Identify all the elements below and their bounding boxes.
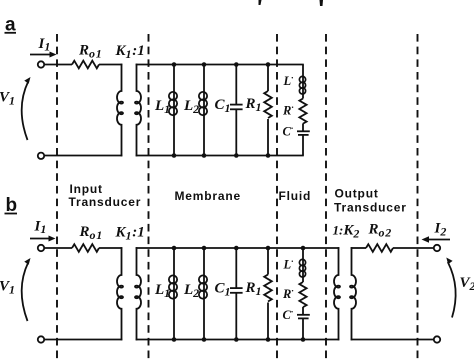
dashed boundary line 2 (transducer/membrane): [148, 34, 150, 360]
resistor R1 (a): [264, 65, 272, 156]
transformer K1 primary winding (a): [117, 64, 123, 157]
transformer K2 primary winding (b): [334, 247, 340, 340]
terminal bottom-left (a): [38, 153, 44, 159]
panel label b: [5, 195, 18, 216]
voltage arrow V1 (a): [22, 77, 31, 140]
inductor L1 (a): [169, 65, 177, 156]
terminal top-left (a): [38, 61, 44, 67]
wire: resistor to transformer primary (b): [99, 247, 122, 249]
terminal bottom-left (b): [38, 336, 44, 342]
fluid inductor L (b): [299, 248, 305, 282]
resistor Ro1 (b): [72, 244, 99, 252]
wire: top-left to resistor (b): [44, 247, 72, 249]
transformer K1 primary winding (b): [117, 247, 123, 340]
junction dots membrane bottom rail (a): [172, 153, 271, 158]
resistor R1 (b): [264, 248, 272, 340]
wire: resistor to top-right terminal (b): [393, 247, 434, 249]
terminal top-right (b): [434, 245, 440, 251]
wire: membrane bottom rail (a): [136, 155, 304, 157]
resistor Ro1 (a): [72, 61, 99, 69]
wire: membrane bottom rail (b): [136, 339, 340, 341]
transformer K1 secondary winding (a): [135, 64, 141, 157]
inductor L2 (a): [199, 65, 207, 156]
transformer K1 secondary winding (b): [135, 247, 141, 340]
inductor L1 (b): [169, 248, 177, 340]
resistor Ro2 (b): [366, 244, 393, 252]
capacitor C1 (b): [230, 248, 243, 340]
dashed boundary line 5 (output side): [417, 34, 419, 360]
transformer K2 secondary winding (b): [350, 247, 356, 340]
wire: bottom-left rail (b): [44, 339, 122, 341]
wire: resistor to transformer primary (a): [99, 64, 122, 66]
terminal bottom-right (b): [434, 336, 440, 342]
voltage arrow V1 (b): [22, 258, 31, 321]
panel label a: [5, 15, 17, 36]
section label: Output Transducer: [334, 187, 407, 215]
junction dots membrane top rail (a): [172, 62, 271, 67]
current arrow I1 (a): [30, 52, 57, 58]
wire: secondary to bottom-right terminal (b): [351, 339, 434, 341]
voltage arrow V2 (b): [446, 258, 455, 318]
junction dots membrane top rail (b): [172, 246, 306, 251]
fluid capacitor C (b): [297, 307, 310, 340]
fluid resistor R (a): [299, 99, 306, 124]
wire: bottom-left rail (a): [44, 155, 122, 157]
dashed boundary line 4 (fluid/output): [325, 34, 327, 360]
svg-text:Membrane: Membrane: [175, 189, 241, 203]
junction dots membrane bottom rail (b): [172, 337, 306, 342]
svg-text:Transducer: Transducer: [69, 195, 142, 209]
svg-text:Fluid: Fluid: [279, 189, 312, 203]
fluid resistor R (b): [299, 282, 306, 307]
fluid inductor L (a): [299, 65, 305, 99]
svg-text:I1: I1: [34, 219, 48, 237]
capacitor C1 (a): [230, 65, 243, 156]
wire: membrane top rail (b): [136, 247, 340, 249]
current arrow I2 (b): [422, 236, 451, 242]
wire: membrane top rail (a): [136, 64, 304, 66]
current arrow I1 (b): [30, 236, 56, 242]
section label: Input Transducer: [69, 182, 142, 209]
wire: secondary to resistor Ro2 (b): [351, 247, 366, 249]
svg-text:Transducer: Transducer: [334, 201, 407, 215]
terminal top-left (b): [38, 245, 44, 251]
svg-text:Output: Output: [335, 187, 379, 201]
svg-text:I1: I1: [38, 36, 52, 54]
wire: top-left to resistor (a): [44, 64, 72, 66]
fluid capacitor C (a): [297, 124, 310, 156]
dashed boundary line 1 (input side): [56, 34, 58, 360]
inductor L2 (b): [199, 248, 207, 340]
dashed boundary line 3 (membrane/fluid): [276, 34, 278, 360]
